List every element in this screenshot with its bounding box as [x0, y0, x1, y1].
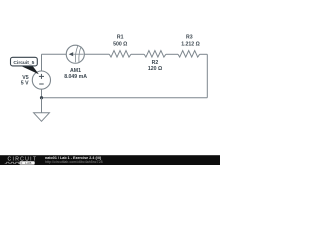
logo LAB box — [20, 161, 35, 164]
wire: R1 to R2 — [131, 53, 144, 55]
ground — [34, 113, 50, 122]
wire: top rail — [42, 53, 110, 55]
footer bar — [0, 155, 220, 165]
svg-text:120 Ω: 120 Ω — [148, 66, 162, 72]
wire: bottom rail — [42, 97, 208, 99]
logo waveform — [5, 162, 20, 163]
svg-text:R1: R1 — [117, 35, 124, 41]
resistor R2 — [144, 51, 166, 73]
voltage source V5 — [21, 71, 51, 89]
junction node — [40, 96, 43, 99]
resistor R3 — [178, 35, 200, 58]
wire: left drop from corner to V5 top — [41, 54, 43, 71]
svg-text:8.049 mA: 8.049 mA — [64, 74, 87, 80]
wire: R2 to R3 — [166, 53, 178, 55]
wire: V5 bottom to junction — [41, 89, 43, 98]
label flag Circuit_5 — [11, 57, 39, 74]
svg-text:LAB: LAB — [25, 161, 32, 165]
svg-text:R2: R2 — [152, 60, 159, 66]
wire: junction to ground — [41, 98, 43, 113]
svg-text:http://circuitlab.com/c6bc4ah5: http://circuitlab.com/c6bc4ah5nc728 — [45, 160, 103, 164]
resistor R1 — [109, 35, 131, 58]
svg-text:5 V: 5 V — [21, 81, 29, 87]
svg-text:R3: R3 — [186, 35, 193, 41]
ammeter AM1 — [64, 45, 87, 80]
wire: R3 to right corner — [200, 53, 208, 55]
svg-text:500 Ω: 500 Ω — [113, 41, 127, 47]
svg-text:1.212 Ω: 1.212 Ω — [181, 41, 200, 47]
wire: right rail — [206, 54, 208, 97]
svg-text:Circuit_5: Circuit_5 — [13, 60, 34, 66]
